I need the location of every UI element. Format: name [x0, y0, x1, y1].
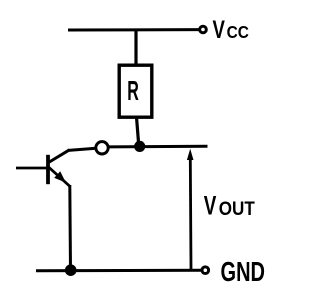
wire collector corner to bubble — [69, 148, 97, 150]
resistor R — [119, 65, 152, 117]
terminal GND — [202, 267, 209, 274]
wire rail to resistor top — [134, 29, 137, 66]
wire bubble to node and right end — [108, 145, 207, 149]
svg-text:GND: GND — [221, 256, 266, 287]
label VOUT — [204, 191, 255, 221]
svg-text:R: R — [127, 75, 139, 106]
transistor Q1 base bar — [46, 155, 50, 184]
label VCC — [213, 16, 250, 44]
svg-text:V: V — [204, 191, 217, 221]
open-collector bubble — [96, 142, 108, 154]
transistor Q1 emitter — [49, 167, 70, 186]
transistor Q1 base lead — [16, 167, 47, 170]
junction dot on ground rail — [65, 264, 77, 276]
junction node dot — [134, 141, 145, 152]
terminal VCC — [200, 26, 207, 33]
wire VOUT arrow shaft — [189, 158, 192, 269]
VOUT arrowhead — [187, 149, 194, 160]
svg-text:CC: CC — [227, 22, 250, 42]
svg-text:V: V — [213, 16, 226, 44]
wire GND rail (bottom) — [36, 269, 202, 273]
transistor Q1 emitter arrowhead — [54, 171, 66, 182]
svg-text:OUT: OUT — [219, 198, 255, 220]
wire VCC rail (top) — [68, 28, 200, 31]
transistor Q1 collector — [49, 150, 70, 163]
wire emitter to ground rail — [68, 185, 72, 270]
wire resistor bottom to node — [137, 117, 139, 146]
